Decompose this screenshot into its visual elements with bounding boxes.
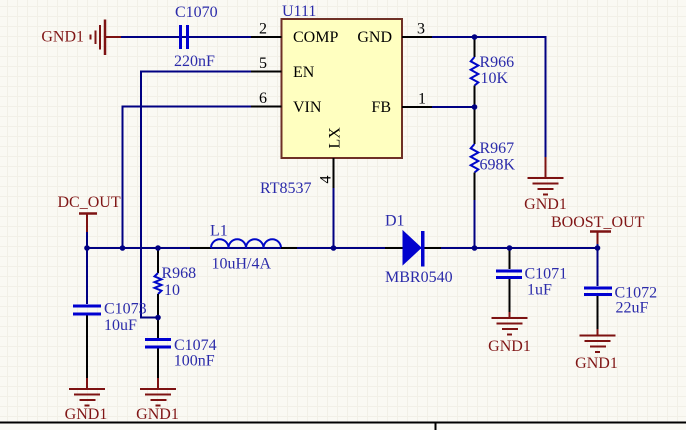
pin 1 FB: [371, 91, 432, 117]
svg-text:GND1: GND1: [575, 355, 618, 372]
svg-text:GND1: GND1: [488, 338, 531, 355]
svg-text:D1: D1: [385, 213, 405, 230]
ground GND1 under C1072: [580, 329, 616, 352]
diode D1: [385, 231, 441, 267]
wire R967 to output: [474, 200, 476, 248]
svg-text:L1: L1: [210, 223, 228, 240]
capacitor C1073: [73, 248, 101, 379]
svg-text:220nF: 220nF: [174, 53, 215, 70]
svg-text:4: 4: [318, 176, 335, 184]
svg-text:1uF: 1uF: [527, 282, 552, 299]
svg-text:22uF: 22uF: [616, 300, 649, 317]
junction node VIN: [120, 245, 126, 251]
resistor R967: [471, 107, 479, 200]
svg-text:10uH/4A: 10uH/4A: [212, 256, 272, 273]
wire FB net: [402, 106, 475, 108]
svg-text:2: 2: [259, 21, 267, 38]
ground GND1 under C1071: [492, 312, 528, 335]
svg-text:GND1: GND1: [136, 406, 179, 423]
svg-text:698K: 698K: [480, 157, 516, 174]
svg-text:GND1: GND1: [524, 196, 567, 213]
svg-text:GND: GND: [357, 29, 392, 46]
wire DC_OUT down: [86, 232, 88, 248]
junction node EN/R968/C1074: [155, 315, 161, 321]
junction node R967 bottom: [472, 245, 478, 251]
pin overdraw GND: [402, 36, 432, 38]
resistor R968: [155, 248, 162, 318]
wire BOOST_OUT down: [597, 244, 599, 248]
svg-text:DC_OUT: DC_OUT: [58, 194, 121, 211]
svg-text:LX: LX: [327, 127, 344, 149]
svg-text:10uF: 10uF: [104, 317, 137, 334]
wire GND net right: [402, 37, 546, 160]
svg-text:1: 1: [418, 91, 426, 108]
power port DC_OUT: [79, 214, 97, 233]
inductor L1: [190, 239, 297, 248]
wire EN net: [141, 72, 251, 318]
svg-text:EN: EN: [293, 64, 315, 81]
junction node BOOST_OUT: [595, 245, 601, 251]
ground GND1 under C1074: [140, 378, 176, 406]
resistor R966: [471, 37, 479, 107]
wire LX down: [333, 188, 335, 248]
power port BOOST_OUT: [590, 232, 611, 245]
pin 3 GND: [357, 21, 432, 47]
wire VIN net: [123, 107, 252, 249]
svg-text:R967: R967: [480, 140, 515, 157]
svg-text:100nF: 100nF: [174, 353, 215, 370]
pin 5 EN: [251, 55, 315, 81]
svg-text:C1071: C1071: [525, 266, 568, 283]
pin 4 LX: [318, 127, 344, 188]
svg-text:C1073: C1073: [104, 301, 147, 318]
svg-text:COMP: COMP: [293, 29, 338, 46]
pin 2 COMP: [251, 21, 338, 47]
svg-text:R968: R968: [162, 265, 197, 282]
sheet border bottom: [0, 423, 686, 430]
svg-text:FB: FB: [371, 99, 391, 116]
pin 6 VIN: [251, 90, 322, 116]
wire main node: [87, 247, 598, 249]
svg-text:VIN: VIN: [293, 99, 322, 116]
svg-text:C1070: C1070: [175, 4, 218, 21]
pin overdraw FB: [402, 106, 432, 108]
ground GND1 top-left: [91, 20, 123, 56]
svg-text:R966: R966: [480, 54, 515, 71]
junction node R968 top: [155, 245, 161, 251]
svg-text:6: 6: [259, 90, 267, 107]
svg-text:GND1: GND1: [41, 29, 84, 46]
IC U111 (boost converter) body: [282, 19, 403, 158]
capacitor C1074: [145, 318, 171, 380]
svg-text:3: 3: [417, 21, 425, 38]
capacitor C1071: [496, 248, 522, 313]
junction node DC_OUT: [84, 245, 90, 251]
junction node LX: [331, 245, 337, 251]
svg-text:MBR0540: MBR0540: [385, 269, 453, 286]
svg-text:5: 5: [259, 55, 267, 72]
svg-text:C1074: C1074: [174, 337, 217, 354]
wire COMP net: [121, 36, 251, 38]
junction node FB net: [472, 104, 478, 110]
svg-text:RT8537: RT8537: [260, 180, 311, 197]
svg-text:U111: U111: [282, 3, 316, 20]
junction node C1071: [507, 245, 513, 251]
svg-text:10K: 10K: [481, 70, 509, 87]
junction node COMP/GND net: [472, 34, 478, 40]
svg-text:10: 10: [164, 282, 180, 299]
capacitor C1072: [584, 248, 612, 330]
capacitor C1070: [181, 25, 188, 49]
svg-text:BOOST_OUT: BOOST_OUT: [551, 214, 645, 231]
ground GND1 right: [528, 157, 564, 195]
svg-text:GND1: GND1: [65, 406, 108, 423]
ground GND1 under C1073: [69, 378, 105, 406]
